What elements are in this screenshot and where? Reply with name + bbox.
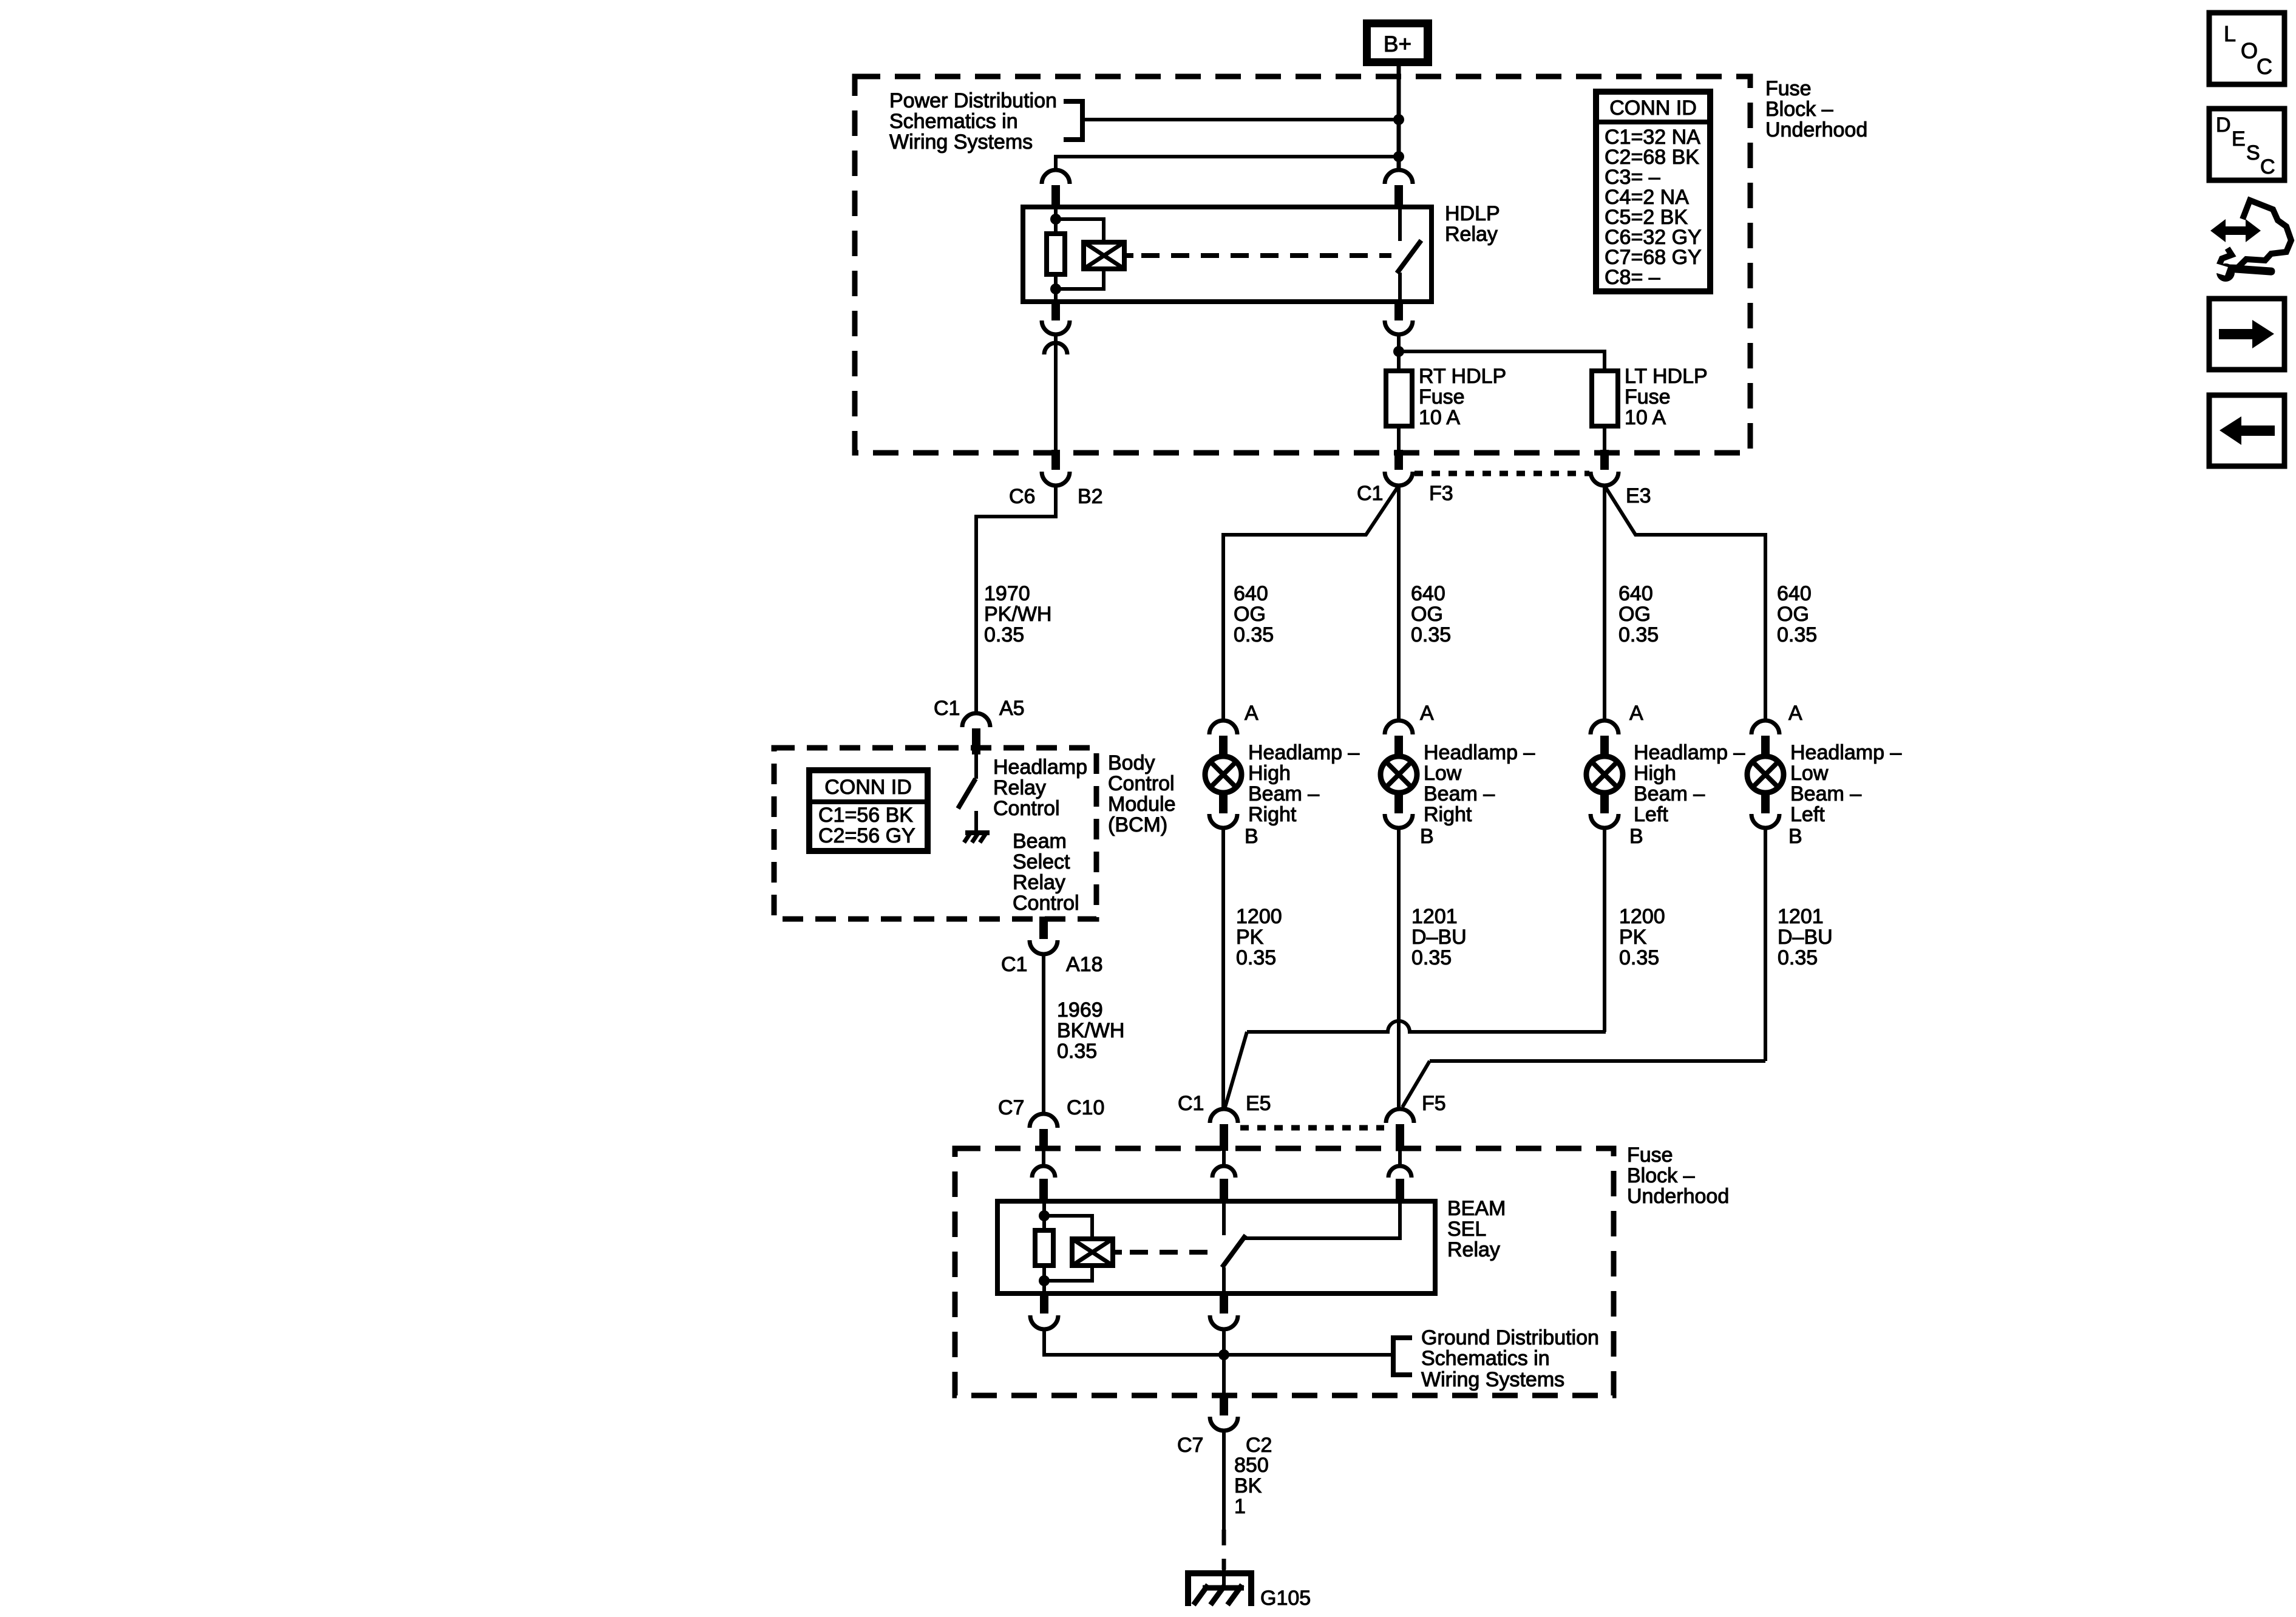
label wire 1201 D-BU 0.35 (right) (1411, 905, 1467, 969)
wire ground bus inside block (1044, 1329, 1392, 1355)
ground G105 (1185, 1570, 1254, 1606)
svg-text:C7: C7 (1177, 1434, 1203, 1457)
junction node fuse feed (1393, 346, 1404, 357)
svg-text:D: D (2216, 114, 2231, 137)
svg-text:A: A (1245, 702, 1258, 725)
label wire 1969 BK/WH 0.35 (1057, 998, 1124, 1063)
svg-text:LT HDLP: LT HDLP (1625, 365, 1708, 388)
fuse block underhood dashed box (lower) (955, 1148, 1614, 1395)
svg-text:Right: Right (1424, 803, 1472, 826)
label wire 1200 PK 0.35 (right) (1236, 905, 1282, 969)
wire switch common to F5 pin (1245, 1201, 1400, 1238)
junction node lower (1393, 151, 1404, 162)
svg-text:Relay: Relay (1013, 871, 1065, 894)
wire low beam tie (1430, 1059, 1765, 1063)
label Fuse Block Underhood (upper) (1765, 77, 1867, 141)
svg-text:Headlamp: Headlamp (993, 756, 1087, 779)
svg-text:C1=56 BK: C1=56 BK (818, 804, 913, 827)
connector C1-E5 at lower block edge (1210, 1109, 1238, 1151)
label Fuse Block Underhood (lower) (1627, 1144, 1729, 1208)
svg-text:CONN ID: CONN ID (1609, 97, 1697, 120)
svg-text:10 A: 10 A (1419, 406, 1460, 429)
label wire 850 BK 1 (1234, 1454, 1269, 1518)
svg-text:0.35: 0.35 (1411, 946, 1452, 969)
connector C1-A18 out of BCM (1030, 917, 1058, 954)
svg-text:0.35: 0.35 (1057, 1040, 1097, 1063)
label wire 1201 D-BU 0.35 (left) (1778, 905, 1833, 969)
wire to LT fuse (1399, 351, 1605, 371)
wire LT fuse to block edge (1603, 426, 1606, 453)
svg-text:Relay: Relay (1445, 223, 1498, 246)
svg-text:Headlamp –: Headlamp – (1790, 741, 1901, 764)
BEAM SEL relay solenoid element (1072, 1239, 1113, 1266)
wire parallel branch to solenoid (beam sel) (1044, 1216, 1092, 1239)
dotted connector body line E5-F5 (1240, 1125, 1384, 1131)
connector below beam sel coil (1030, 1293, 1058, 1329)
svg-text:Control: Control (993, 797, 1060, 820)
svg-text:Headlamp –: Headlamp – (1634, 741, 1745, 764)
wire E3 straight to headlamp high beam left (1603, 486, 1606, 720)
svg-text:0.35: 0.35 (984, 623, 1024, 646)
svg-text:O: O (2241, 38, 2258, 63)
svg-text:Block –: Block – (1627, 1164, 1695, 1187)
svg-text:C6: C6 (1009, 485, 1035, 508)
svg-text:1200: 1200 (1619, 905, 1665, 928)
label wire 640 OG 0.35 (3) (1618, 582, 1659, 646)
svg-text:Headlamp –: Headlamp – (1424, 741, 1535, 764)
connector C1-F3 at block edge (1385, 450, 1413, 486)
wire F3 straight to headlamp low beam right (1397, 486, 1401, 720)
wire switch leg to ground bus (1222, 1329, 1226, 1395)
svg-text:OG: OG (1618, 603, 1651, 626)
lamp E1 headlamp high beam right (1205, 720, 1241, 828)
dashed actuator link to switch (1141, 253, 1391, 258)
table CONN ID (BCM) (809, 770, 928, 851)
connector C6-B2 at block edge (1042, 450, 1070, 486)
icon service-manual hand with wrench (2210, 200, 2291, 282)
wire B+ feed down (1397, 66, 1401, 170)
svg-text:Right: Right (1248, 803, 1297, 826)
junction node coil top (1050, 214, 1061, 225)
svg-text:Block –: Block – (1765, 98, 1833, 121)
svg-text:C10: C10 (1067, 1096, 1104, 1119)
dashed actuator link to switch (beam sel) (1130, 1250, 1215, 1255)
svg-text:B: B (1629, 825, 1643, 848)
label wire 1200 PK 0.35 (left) (1619, 905, 1665, 969)
wire parallel branch to solenoid (1056, 219, 1104, 242)
svg-text:Module: Module (1108, 793, 1176, 816)
svg-text:OG: OG (1777, 603, 1809, 626)
relay BEAM SEL box (997, 1201, 1435, 1293)
label Headlamp Relay Control (993, 756, 1087, 820)
label Headlamp High Beam Left (1634, 741, 1745, 826)
wire slant into E5 (1225, 1032, 1247, 1107)
relay HDLP box (1023, 207, 1432, 302)
junction node coil bottom (beam sel) (1039, 1275, 1050, 1286)
svg-text:Fuse: Fuse (1765, 77, 1812, 100)
BCM driver switch headlamp relay control (958, 754, 976, 833)
svg-text:A18: A18 (1066, 953, 1103, 976)
connector into HDLP relay coil (left pin) (1042, 170, 1070, 208)
svg-text:Left: Left (1790, 803, 1825, 826)
svg-text:Fuse: Fuse (1419, 385, 1465, 408)
label Headlamp High Beam Right (1248, 741, 1359, 826)
svg-text:C1: C1 (1178, 1092, 1204, 1115)
svg-text:Relay: Relay (993, 776, 1046, 799)
icon forward-arrow box (2209, 299, 2284, 370)
svg-text:850: 850 (1234, 1454, 1269, 1477)
icon LOC box (2209, 13, 2284, 84)
svg-text:B2: B2 (1078, 485, 1103, 508)
svg-text:HDLP: HDLP (1445, 202, 1500, 225)
wire solenoid actuator stub (beam sel) (1113, 1250, 1122, 1255)
table CONN ID (fuse block) (1596, 92, 1710, 291)
connector into beam sel relay pin F5 (1388, 1151, 1411, 1201)
svg-text:Schematics in: Schematics in (889, 110, 1018, 133)
label wire 1970 PK/WH 0.35 (984, 582, 1051, 646)
lamp E4 headlamp low beam left (1747, 720, 1784, 828)
svg-text:B: B (1420, 825, 1434, 848)
svg-text:0.35: 0.35 (1618, 623, 1659, 646)
BCM internal ground (964, 832, 990, 842)
wire 850 BK to ground (1222, 1431, 1226, 1530)
svg-text:C1: C1 (1001, 953, 1027, 976)
wire lamp2 B down to F5 (1397, 828, 1401, 1107)
svg-text:C2=56 GY: C2=56 GY (818, 824, 915, 847)
connector C7-C2 at block bottom edge (1210, 1395, 1238, 1431)
wire E3 branch to headlamp low beam left (1605, 486, 1765, 720)
svg-text:OG: OG (1234, 603, 1266, 626)
svg-text:B: B (1788, 825, 1802, 848)
junction node coil bottom (1050, 283, 1061, 294)
svg-text:BK/WH: BK/WH (1057, 1019, 1124, 1042)
svg-text:C1: C1 (1357, 482, 1383, 505)
battery terminal B+ (1363, 19, 1432, 66)
label Headlamp Low Beam Right (1424, 741, 1535, 826)
svg-text:Relay: Relay (1447, 1238, 1500, 1261)
svg-text:A: A (1788, 702, 1802, 725)
BEAM SEL relay switch (1222, 1201, 1246, 1293)
connector pair below relay coil (1042, 302, 1070, 450)
label HDLP Relay (1445, 202, 1500, 246)
svg-text:C8= –: C8= – (1605, 266, 1660, 289)
svg-text:0.35: 0.35 (1619, 946, 1659, 969)
BEAM SEL relay coil leg (1042, 1201, 1046, 1230)
svg-text:Headlamp –: Headlamp – (1248, 741, 1359, 764)
svg-text:S: S (2246, 141, 2260, 164)
svg-text:L: L (2224, 21, 2236, 46)
svg-text:Power Distribution: Power Distribution (889, 89, 1057, 112)
connector into HDLP relay switch (right pin) (1385, 170, 1413, 208)
svg-text:Wiring Systems: Wiring Systems (889, 131, 1033, 154)
svg-text:High: High (1248, 762, 1291, 785)
connector into beam sel relay pin C10 (1032, 1151, 1055, 1201)
HDLP relay coil leg lower wire (1054, 274, 1058, 302)
svg-text:G105: G105 (1260, 1587, 1311, 1610)
svg-text:Ground Distribution: Ground Distribution (1421, 1326, 1599, 1349)
wire lamp1 B down to E5 (1221, 828, 1225, 1107)
wire 1969 BK/WH down to C7-C10 (1042, 954, 1045, 1114)
svg-text:0.35: 0.35 (1777, 623, 1817, 646)
svg-text:BEAM: BEAM (1447, 1197, 1506, 1220)
svg-text:0.35: 0.35 (1778, 946, 1818, 969)
svg-text:10 A: 10 A (1625, 406, 1666, 429)
label BEAM SEL Relay (1447, 1197, 1506, 1261)
label Headlamp Low Beam Left (1790, 741, 1901, 826)
svg-text:Beam –: Beam – (1634, 782, 1705, 805)
svg-text:Beam: Beam (1013, 830, 1067, 853)
svg-text:640: 640 (1777, 582, 1812, 605)
HDLP relay coil resistor (1047, 234, 1065, 274)
svg-text:C1: C1 (934, 697, 960, 720)
svg-text:Wiring Systems: Wiring Systems (1421, 1368, 1564, 1391)
wire lamp4 B down to tie (1764, 828, 1767, 1061)
HDLP relay solenoid element (1084, 242, 1124, 269)
svg-text:0.35: 0.35 (1234, 623, 1274, 646)
svg-text:CONN ID: CONN ID (824, 776, 912, 799)
svg-text:640: 640 (1618, 582, 1653, 605)
svg-text:0.35: 0.35 (1411, 623, 1451, 646)
junction node on B+ feed (1393, 114, 1404, 125)
svg-text:B+: B+ (1384, 32, 1411, 56)
svg-text:1970: 1970 (984, 582, 1030, 605)
dotted connector body line F3-E3 (1415, 471, 1589, 476)
svg-text:SEL: SEL (1447, 1218, 1486, 1241)
wire solenoid actuator stub (1124, 253, 1133, 258)
svg-text:D–BU: D–BU (1778, 926, 1833, 949)
svg-text:1: 1 (1234, 1495, 1246, 1518)
svg-text:D–BU: D–BU (1411, 926, 1467, 949)
svg-text:RT HDLP: RT HDLP (1419, 365, 1506, 388)
svg-text:A: A (1420, 702, 1434, 725)
wire solenoid return to coil (1056, 269, 1104, 289)
svg-text:PK/WH: PK/WH (984, 603, 1051, 626)
svg-text:Low: Low (1790, 762, 1829, 785)
icon DESC box (2209, 109, 2284, 180)
svg-text:640: 640 (1411, 582, 1445, 605)
svg-text:640: 640 (1234, 582, 1268, 605)
svg-text:OG: OG (1411, 603, 1443, 626)
svg-text:Control: Control (1108, 772, 1175, 795)
svg-text:Beam –: Beam – (1248, 782, 1319, 805)
svg-text:C7: C7 (998, 1096, 1024, 1119)
svg-text:Schematics in: Schematics in (1421, 1347, 1550, 1370)
svg-text:High: High (1634, 762, 1676, 785)
svg-text:Underhood: Underhood (1627, 1185, 1729, 1208)
svg-text:Select: Select (1013, 850, 1070, 873)
wire F3 branch to headlamp high beam right (1223, 486, 1399, 720)
lamp E2 headlamp low beam right (1381, 720, 1417, 828)
svg-text:A5: A5 (999, 697, 1025, 720)
label wire 640 OG 0.35 (1) (1234, 582, 1274, 646)
svg-text:PK: PK (1619, 926, 1647, 949)
svg-text:Fuse: Fuse (1625, 385, 1671, 408)
lamp E3 headlamp high beam left (1586, 720, 1623, 828)
fuse LT HDLP 10A (1592, 371, 1618, 426)
wire RT fuse to block edge (1397, 426, 1401, 453)
wire solenoid return (beam sel) (1044, 1266, 1092, 1281)
connector E3 at block edge (1591, 450, 1618, 486)
wire lamp3 B down to tie (1603, 828, 1606, 1032)
svg-text:PK: PK (1236, 926, 1264, 949)
svg-text:1201: 1201 (1411, 905, 1458, 928)
HDLP relay coil leg wire (1054, 207, 1058, 234)
label wire 640 OG 0.35 (2) (1411, 582, 1451, 646)
svg-text:Control: Control (1013, 892, 1079, 915)
wire branch to relay coil (1056, 157, 1399, 170)
svg-text:(BCM): (BCM) (1108, 813, 1167, 836)
icon back-arrow box (2209, 395, 2284, 466)
connector into beam sel relay pin E5 (1212, 1151, 1235, 1201)
svg-text:0.35: 0.35 (1236, 946, 1276, 969)
svg-text:Left: Left (1634, 803, 1668, 826)
dashed wire segment to G105 (1222, 1530, 1226, 1570)
svg-text:Underhood: Underhood (1765, 118, 1867, 141)
svg-text:1201: 1201 (1778, 905, 1824, 928)
bracket to ground distribution note (1393, 1338, 1412, 1375)
svg-text:Beam –: Beam – (1424, 782, 1495, 805)
junction node coil top (beam sel) (1039, 1210, 1050, 1221)
connector F5 at lower block edge (1386, 1109, 1414, 1151)
module BCM dashed box (774, 748, 1096, 919)
BEAM SEL relay coil lower leg (1042, 1266, 1046, 1293)
label Ground Distribution Schematics in Wiring Systems (1421, 1326, 1599, 1391)
label LT HDLP fuse (1625, 365, 1708, 429)
BEAM SEL relay coil resistor (1035, 1230, 1053, 1266)
svg-text:E: E (2232, 127, 2246, 151)
label Body Control Module (BCM) (1108, 751, 1176, 836)
junction node ground bus (1218, 1349, 1229, 1360)
svg-text:1200: 1200 (1236, 905, 1282, 928)
svg-text:Body: Body (1108, 751, 1155, 775)
label wire 640 OG 0.35 (4) (1777, 582, 1817, 646)
svg-text:F5: F5 (1422, 1092, 1446, 1115)
svg-text:A: A (1629, 702, 1643, 725)
svg-text:C: C (2257, 54, 2272, 79)
wire high beam tie with hop over low beam wire (1247, 1021, 1606, 1032)
svg-text:E3: E3 (1626, 484, 1651, 507)
svg-text:E5: E5 (1246, 1092, 1271, 1115)
connector below relay switch (1385, 302, 1413, 371)
label RT HDLP fuse (1419, 365, 1506, 429)
svg-text:C: C (2260, 155, 2275, 178)
svg-text:1969: 1969 (1057, 998, 1103, 1022)
wire 1970 PK/WH from C6-B2 to BCM (976, 486, 1056, 713)
bracket to power distribution note (1064, 101, 1082, 140)
svg-text:F3: F3 (1429, 482, 1453, 505)
wire from note bracket to B+ feed (1082, 118, 1399, 121)
connector below beam sel switch (1210, 1293, 1238, 1329)
connector C1-A5 into BCM (962, 713, 990, 754)
fuse block underhood dashed box (top) (855, 76, 1750, 453)
label Beam Select Relay Control (1013, 830, 1079, 915)
svg-text:Fuse: Fuse (1627, 1144, 1673, 1167)
HDLP relay switch (1397, 207, 1421, 302)
connector C7-C10 at lower block edge (1030, 1114, 1058, 1151)
svg-text:Low: Low (1424, 762, 1462, 785)
svg-text:Beam –: Beam – (1790, 782, 1861, 805)
fuse RT HDLP 10A (1386, 371, 1412, 426)
svg-text:B: B (1245, 825, 1258, 848)
label Power Distribution Schematics in Wiring Systems (889, 89, 1057, 154)
svg-text:BK: BK (1234, 1474, 1262, 1497)
wire slant into F5 (1402, 1061, 1430, 1107)
